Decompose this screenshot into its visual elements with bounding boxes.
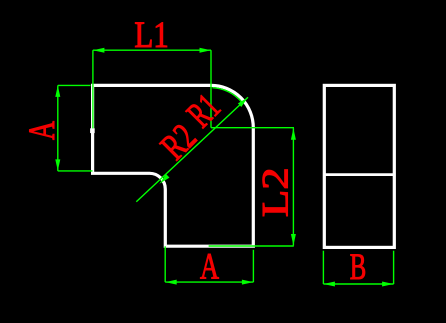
dimension B arrow right: [382, 282, 394, 287]
radius arc mark along outer fillet: [212, 88, 241, 102]
dimension L1 extension line left: [92, 50, 94, 128]
dimension L1 extension line right: [210, 50, 212, 128]
dimension A bottom arrow left: [165, 280, 177, 285]
dimension L2 extension bottom: [209, 245, 294, 247]
dimension B extension left: [322, 251, 324, 284]
dimension A left arrow bottom: [55, 159, 60, 171]
dimension B extension right: [393, 251, 395, 284]
grip marker on left edge: [90, 128, 95, 133]
svg-text:A: A: [200, 247, 219, 288]
svg-text:A: A: [22, 121, 63, 140]
svg-text:B: B: [350, 247, 367, 288]
radius leader line R1 R2: [136, 97, 248, 202]
dimension A left extension bottom: [58, 170, 93, 172]
dimension A bottom extension left: [164, 246, 166, 282]
arrow R1 (points up-right at outer arc): [238, 97, 248, 107]
dimension L2 extension top: [211, 127, 294, 129]
svg-text:L1: L1: [134, 15, 169, 56]
svg-text:L2: L2: [255, 167, 296, 217]
dimension A bottom line: [165, 281, 253, 283]
dimension B line: [323, 283, 393, 285]
dimension L1 line: [93, 49, 211, 51]
dimension L1 arrow right: [200, 48, 212, 53]
arrow R2 (points down-left at inner arc): [159, 174, 169, 184]
dimension L2 line: [292, 128, 294, 245]
side view divider line: [324, 173, 394, 176]
dimension L2 arrow bottom: [291, 234, 296, 246]
side view rectangle: [324, 85, 394, 247]
dimension L2 arrow top: [291, 128, 296, 140]
dimension A left line: [57, 85, 59, 170]
dimension A bottom extension right: [252, 250, 254, 282]
dimension A left arrow top: [55, 85, 60, 97]
dimension L1 arrow left: [93, 48, 105, 53]
dimension A left extension top: [58, 84, 91, 86]
dimension A bottom arrow right: [242, 280, 254, 285]
dimension B arrow left: [323, 282, 335, 287]
elbow outline main view: [93, 85, 254, 246]
